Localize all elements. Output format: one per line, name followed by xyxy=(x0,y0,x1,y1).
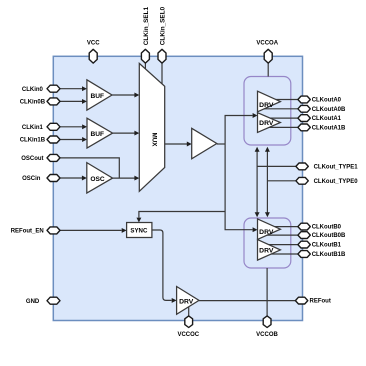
IC body xyxy=(53,56,302,320)
wire CLKin_SEL1 to MUX xyxy=(144,63,146,70)
wire CLKin1 to BUF2 xyxy=(60,126,82,128)
shape labels xyxy=(90,93,274,306)
wire DRV A1 output xyxy=(262,117,299,119)
svg-text:GND: GND xyxy=(26,299,40,305)
svg-text:CLKin1B: CLKin1B xyxy=(20,138,46,144)
svg-text:CLKoutB0: CLKoutB0 xyxy=(312,225,342,231)
wire CLKin_SEL0 to MUX xyxy=(161,63,163,85)
arrow into OSC xyxy=(82,176,87,181)
svg-text:CLKout_TYPE0: CLKout_TYPE0 xyxy=(314,179,359,185)
svg-text:CLKin_SEL1: CLKin_SEL1 xyxy=(143,6,150,45)
svg-text:DRV: DRV xyxy=(259,120,274,127)
wire REFout xyxy=(199,300,298,302)
arrow TYPE left down xyxy=(255,212,260,217)
wire buffer output to distribution node xyxy=(217,143,225,145)
svg-text:CLKin0B: CLKin0B xyxy=(20,100,46,106)
svg-text:CLKin0: CLKin0 xyxy=(22,87,44,93)
pin GND xyxy=(47,297,60,304)
buffer BUF2 xyxy=(87,118,113,148)
wire TYPE control left vertical xyxy=(256,152,258,213)
driver DRV B0 xyxy=(258,219,281,240)
arrow into MUX in1 xyxy=(134,131,139,136)
wire VCCOB to bank B xyxy=(266,268,268,316)
pin OSCin xyxy=(47,175,60,182)
svg-text:DRV: DRV xyxy=(259,248,274,255)
arrow into buffer xyxy=(187,142,192,147)
arrow TYPE right down xyxy=(265,212,270,217)
svg-text:OSCout: OSCout xyxy=(21,156,43,162)
svg-text:OSCin: OSCin xyxy=(22,176,41,182)
svg-text:CLKoutA1B: CLKoutA1B xyxy=(312,126,346,132)
arrow into MUX in2 xyxy=(134,176,139,181)
wire DRV B1B output xyxy=(262,253,299,255)
output bank A enclosure xyxy=(244,77,291,146)
svg-text:CLKout_TYPE1: CLKout_TYPE1 xyxy=(314,165,359,171)
svg-text:MUX: MUX xyxy=(151,133,158,148)
pin CLKoutB1B xyxy=(298,251,310,258)
arrow into REFout DRV xyxy=(172,298,177,303)
wire CLKin0 to BUF1 xyxy=(60,88,82,90)
wire BUF2 output to MUX xyxy=(113,132,135,134)
wire DRV A0B output xyxy=(262,108,299,110)
pin REFout_EN xyxy=(47,227,60,234)
svg-text:CLKoutA0: CLKoutA0 xyxy=(312,98,342,104)
svg-text:DRV: DRV xyxy=(259,102,274,109)
pin VCC xyxy=(89,49,97,63)
svg-text:CLKoutB1B: CLKoutB1B xyxy=(312,252,346,258)
svg-text:CLKoutB0B: CLKoutB0B xyxy=(312,233,346,239)
svg-text:SYNC: SYNC xyxy=(130,227,148,234)
arrow into SYNC top xyxy=(136,218,141,223)
driver DRV A1 xyxy=(258,113,281,133)
wire VCCOA to bank A xyxy=(267,63,269,77)
arrow TYPE right up xyxy=(265,147,270,152)
svg-text:DRV: DRV xyxy=(179,299,194,306)
wire VCCOC to REFout DRV xyxy=(188,307,190,316)
wire DRV A0 output xyxy=(262,99,299,101)
pin OSCout xyxy=(47,154,60,161)
pin CLKoutA1B xyxy=(298,124,310,131)
output bank B enclosure xyxy=(244,218,291,268)
buffer BUF1 xyxy=(87,80,112,110)
svg-text:VCCOB: VCCOB xyxy=(256,332,278,338)
pin VCCOA xyxy=(264,49,272,63)
svg-text:CLKin_SEL0: CLKin_SEL0 xyxy=(159,6,166,45)
wire distribution vertical xyxy=(225,116,252,230)
svg-text:CLKoutA0B: CLKoutA0B xyxy=(312,107,346,113)
wire CLKin1B to BUF2 xyxy=(60,139,82,141)
wire SYNC tap xyxy=(139,212,225,218)
driver DRV A0 xyxy=(258,91,281,112)
svg-text:REFout_EN: REFout_EN xyxy=(11,229,44,235)
wire BUF1 output to MUX xyxy=(112,94,135,96)
arrow into bank B drivers xyxy=(253,227,258,232)
pin CLKoutB0 xyxy=(298,223,310,230)
wire MUX output to buffer xyxy=(165,143,187,145)
pin REFout xyxy=(295,297,307,304)
driver DRV REFout xyxy=(177,287,199,315)
wire OSCin to OSC xyxy=(60,177,82,179)
pin CLKin_SEL1 xyxy=(141,49,149,63)
svg-text:BUF: BUF xyxy=(91,131,105,138)
pin CLKoutA0B xyxy=(298,105,310,112)
pin CLKoutA0 xyxy=(298,96,310,103)
buffer U1 xyxy=(192,128,217,159)
arrow into MUX in0 xyxy=(134,93,139,98)
pin CLKin0 xyxy=(47,85,60,92)
wire OSC output to MUX xyxy=(113,177,135,179)
wire TYPE control right vertical xyxy=(266,152,268,213)
wire CLKout_TYPE0 xyxy=(267,180,298,182)
oscillator OSC xyxy=(87,163,113,194)
arrow into bank A drivers xyxy=(253,113,258,118)
arrow into SYNC left xyxy=(122,228,127,233)
arrow into BUF2 in1 xyxy=(82,137,87,142)
svg-text:CLKin1: CLKin1 xyxy=(22,125,44,131)
wire OSCout tap xyxy=(60,158,119,178)
svg-text:BUF: BUF xyxy=(91,93,105,100)
wire REFout_EN to SYNC xyxy=(60,229,122,231)
svg-text:CLKoutA1: CLKoutA1 xyxy=(312,116,342,122)
pin CLKout_TYPE1 xyxy=(296,163,308,170)
pin CLKoutA1 xyxy=(298,115,310,122)
pin CLKout_TYPE0 xyxy=(296,177,308,184)
pin CLKoutB1 xyxy=(298,241,310,248)
pin VCCOB xyxy=(263,316,271,328)
wire CLKout_TYPE1 xyxy=(257,165,298,167)
svg-text:CLKoutB1: CLKoutB1 xyxy=(312,243,342,249)
arrow into BUF1 in1 xyxy=(82,99,87,104)
wire SYNC output to REFout DRV xyxy=(152,230,172,300)
pin CLKin0B xyxy=(47,98,60,105)
arrowheads xyxy=(82,86,270,303)
svg-text:DRV: DRV xyxy=(259,229,274,236)
arrow TYPE left up xyxy=(255,147,260,152)
wire DRV B1 output xyxy=(262,244,299,246)
pin CLKoutB0B xyxy=(298,232,310,239)
pin CLKin1 xyxy=(47,123,60,130)
svg-text:VCCOC: VCCOC xyxy=(177,332,199,338)
block SYNC xyxy=(127,223,152,238)
mux MUX xyxy=(139,63,164,191)
wire CLKin0B to BUF1 xyxy=(60,100,82,102)
pin VCCOC xyxy=(185,316,193,328)
arrow into BUF2 in0 xyxy=(82,124,87,129)
pin CLKin1B xyxy=(47,136,60,143)
svg-text:REFout: REFout xyxy=(310,299,331,305)
svg-text:OSC: OSC xyxy=(90,176,105,183)
arrow into BUF1 in0 xyxy=(82,86,87,91)
svg-text:VCCOA: VCCOA xyxy=(256,41,278,47)
pin hexagons xyxy=(47,49,310,327)
pin CLKin_SEL0 xyxy=(158,49,166,63)
wire DRV B0B output xyxy=(262,234,299,236)
wire DRV B0 output xyxy=(262,226,299,228)
svg-text:VCC: VCC xyxy=(87,41,100,47)
wire DRV A1B output xyxy=(262,126,299,128)
driver DRV B1 xyxy=(258,240,281,261)
